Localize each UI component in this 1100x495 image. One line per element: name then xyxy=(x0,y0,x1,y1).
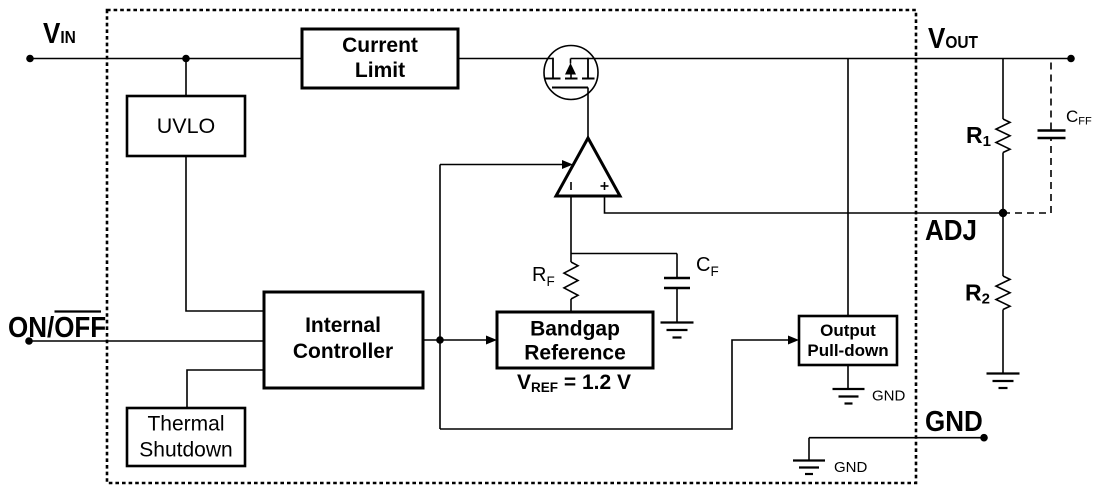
block UVLO xyxy=(127,96,245,156)
junction controller output dot xyxy=(436,336,444,344)
svg-text:Thermal: Thermal xyxy=(147,413,224,436)
svg-text:Reference: Reference xyxy=(524,342,626,365)
junction ADJ dot xyxy=(999,209,1007,217)
capacitor CF xyxy=(664,254,690,323)
svg-text:Internal: Internal xyxy=(305,314,381,337)
wire Current Limit to pass transistor xyxy=(458,58,553,60)
wire dashed ADJ to CFF xyxy=(1003,212,1051,214)
svg-text:UVLO: UVLO xyxy=(157,114,216,138)
arrow into Output Pull-down xyxy=(788,336,799,345)
wire down to internal ground xyxy=(808,438,810,460)
block Internal Controller xyxy=(264,292,423,388)
block Thermal Shutdown xyxy=(127,408,245,466)
ground below CF xyxy=(661,323,694,338)
wire dashed CFF upper leg xyxy=(1050,59,1052,130)
svg-text:GND: GND xyxy=(872,388,906,405)
node ON/OFF terminal dot xyxy=(25,337,33,345)
wire junction down to UVLO xyxy=(185,59,187,97)
ground below R2 xyxy=(987,374,1020,389)
ground internal GND xyxy=(793,461,825,475)
svg-text:Current: Current xyxy=(342,34,418,57)
ground below Output Pull-down xyxy=(833,389,865,404)
node VOUT terminal dot xyxy=(1067,55,1075,63)
capacitor CFF xyxy=(1038,131,1066,139)
wire error amp plus input to ADJ xyxy=(605,196,1004,213)
svg-text:Controller: Controller xyxy=(293,340,393,363)
resistor R1 xyxy=(996,59,1010,214)
wire GND pin xyxy=(809,437,984,439)
wire UVLO to Internal Controller xyxy=(186,156,264,311)
pin label ON/OFF with overbar xyxy=(8,311,106,344)
svg-text:Output: Output xyxy=(820,321,876,340)
wire Output Pull-down to ground xyxy=(847,365,849,388)
wire error amp minus input down xyxy=(570,196,572,262)
wire bottom run to output pull-down xyxy=(440,340,791,429)
wire dashed CFF lower leg xyxy=(1050,139,1052,214)
svg-text:Bandgap: Bandgap xyxy=(530,318,620,341)
wire VIN to Current Limit xyxy=(30,58,302,60)
junction VIN/UVLO dot xyxy=(182,55,190,63)
svg-text:GND: GND xyxy=(834,459,868,476)
svg-text:Limit: Limit xyxy=(355,59,405,82)
transistor Q1 pass PMOS xyxy=(544,46,598,100)
wire vertical reference feed xyxy=(439,165,441,430)
svg-text:ADJ: ADJ xyxy=(925,214,977,247)
wire Thermal Shutdown to Internal Controller xyxy=(187,370,264,408)
op-amp error amplifier xyxy=(556,138,620,196)
svg-text:GND: GND xyxy=(925,405,983,438)
block Current Limit xyxy=(302,29,458,88)
wire VOUT rail xyxy=(571,58,1072,60)
svg-text:Shutdown: Shutdown xyxy=(139,439,232,462)
wire ON/OFF to Internal Controller xyxy=(29,340,264,342)
wire reference into error amp with arrow xyxy=(440,160,573,169)
wire Internal Controller to Bandgap with arrow xyxy=(423,336,497,345)
svg-text:ON/OFF: ON/OFF xyxy=(8,311,106,344)
wire gate to error amp xyxy=(587,88,589,139)
wire VOUT rail down to Output Pull-down xyxy=(847,59,849,317)
block Output Pull-down xyxy=(799,316,897,365)
wire minus node to CF branch xyxy=(571,253,677,255)
node GND terminal dot xyxy=(980,434,988,442)
resistor RF xyxy=(564,262,578,312)
svg-text:Pull-down: Pull-down xyxy=(807,341,888,360)
IC boundary dashed box xyxy=(107,10,916,483)
node VIN terminal dot xyxy=(26,55,34,63)
block Bandgap Reference xyxy=(497,312,653,368)
resistor R2 xyxy=(996,213,1010,373)
